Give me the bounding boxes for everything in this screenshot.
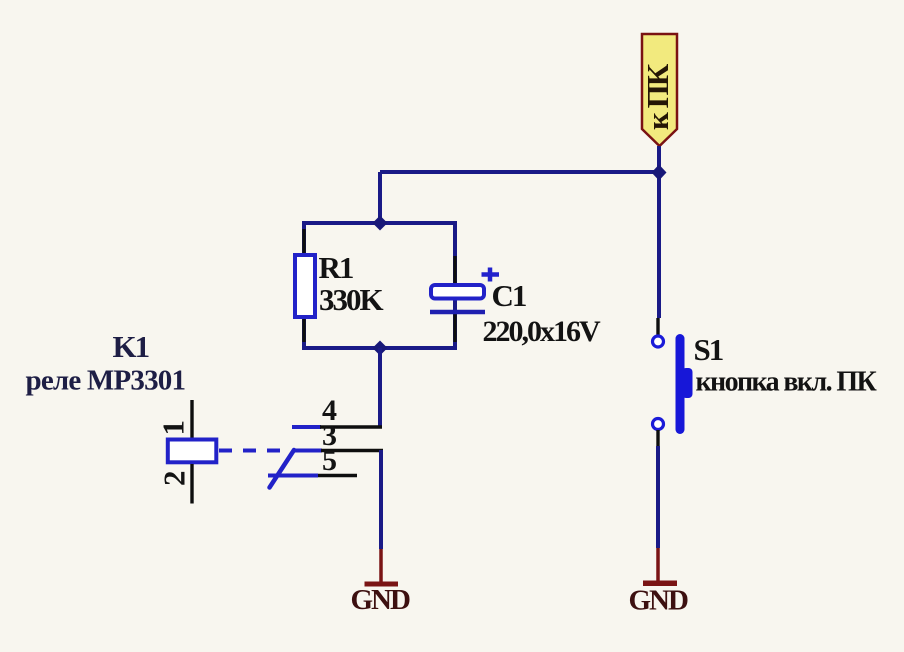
relay K1 coil pin 1 lead (190, 400, 193, 438)
ground left (365, 582, 399, 587)
svg-text:5: 5 (322, 444, 337, 477)
pin lead C1 top (453, 256, 456, 284)
relay K1 coil pin 2 lead (190, 464, 193, 504)
wire loop bottom to pin 4 (378, 348, 382, 427)
svg-text:330K: 330K (319, 282, 384, 317)
plus polarity mark (482, 268, 500, 282)
pin lead S1 top (656, 318, 659, 336)
svg-text:R1: R1 (319, 250, 353, 285)
svg-text:реле МР3301: реле МР3301 (26, 365, 186, 397)
flag "к ПК" (640, 34, 677, 146)
switch S1 bar (676, 334, 685, 434)
svg-text:2: 2 (157, 471, 192, 487)
capacitor C1 bottom plate (430, 310, 485, 315)
svg-text:220,0x16V: 220,0x16V (483, 315, 602, 348)
svg-text:S1: S1 (694, 332, 723, 367)
pin lead R1 bottom (302, 319, 305, 342)
wire loop bottom rail (304, 346, 455, 350)
wire flag tip to junction and down to S1 (657, 146, 661, 318)
pin lead C1 bottom (453, 313, 456, 342)
svg-text:1: 1 (156, 420, 191, 436)
relay K1 contact pin 4 (292, 425, 321, 429)
wire S1 to GND (656, 446, 660, 548)
wire top horizontal (380, 170, 659, 174)
pin lead R1 top (302, 229, 305, 253)
relay K1 coil link dashed (219, 449, 291, 453)
svg-text:GND: GND (629, 585, 689, 617)
svg-text:GND: GND (351, 584, 411, 616)
switch S1 knob (682, 368, 693, 398)
wire loop top rail (304, 221, 455, 225)
wire loop right rail (453, 221, 457, 350)
svg-text:K1: K1 (113, 329, 149, 364)
relay K1 contact pin 5 (268, 474, 318, 478)
ground right (643, 581, 677, 587)
resistor R1 (295, 255, 315, 317)
wire pin 3 to GND (379, 450, 383, 549)
node junction loop top (373, 216, 388, 231)
switch S1 terminal top (653, 336, 664, 347)
ground lead right (656, 548, 660, 581)
wire vertical to loop top (378, 172, 382, 223)
relay K1 contact pin 3 with arm (293, 449, 322, 453)
svg-text:к ПК: к ПК (640, 63, 675, 130)
pin lead S1 bottom (656, 430, 659, 447)
relay K1 moving contact arm (270, 450, 295, 488)
relay K1 coil (168, 440, 217, 463)
svg-text:кнопка вкл. ПК: кнопка вкл. ПК (696, 367, 878, 398)
svg-text:C1: C1 (492, 278, 526, 313)
capacitor C1 top plate (431, 285, 484, 299)
ground lead left (379, 549, 383, 582)
wire loop left rail (302, 221, 306, 350)
switch S1 terminal bottom (653, 419, 664, 430)
node junction loop bottom (373, 341, 388, 356)
node junction top right (652, 165, 667, 181)
